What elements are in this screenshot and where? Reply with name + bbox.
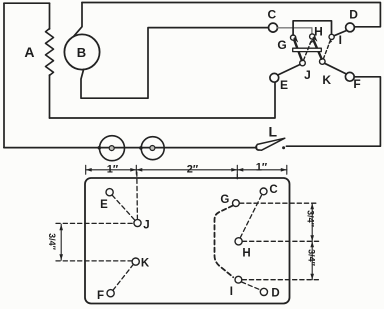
wire G to I bbox=[293, 21, 331, 35]
wire F to K bbox=[325, 63, 347, 74]
crossbar bbox=[293, 48, 322, 51]
dashed H level right bbox=[242, 240, 319, 242]
lamp 2 wire terminal bbox=[140, 147, 143, 150]
dashed K level line bbox=[56, 260, 132, 262]
hole K bbox=[132, 258, 139, 265]
terminal E bbox=[270, 73, 279, 82]
dashed drop to J bbox=[136, 172, 139, 219]
dashed H-C bbox=[240, 195, 262, 238]
wire bus y118 to E riser bbox=[50, 82, 276, 118]
dashed drop below tick 237 bbox=[236, 175, 238, 181]
lamp 1 wire terminal bbox=[98, 147, 101, 150]
svg-text:G: G bbox=[220, 194, 229, 206]
wire F to right edge down to bus bbox=[286, 77, 380, 146]
arrowhead dashed at I bbox=[328, 40, 332, 44]
svg-text:J: J bbox=[304, 68, 311, 82]
tick x136.3 bbox=[135, 165, 137, 174]
wire B top branch bbox=[74, 3, 82, 37]
svg-text:3/4″: 3/4″ bbox=[307, 249, 317, 267]
hole G bbox=[233, 200, 240, 207]
terminal F bbox=[345, 72, 354, 81]
wire B bottom to C bbox=[81, 28, 269, 99]
dashed I level right bbox=[242, 279, 321, 281]
svg-text:3/4″: 3/4″ bbox=[306, 210, 316, 228]
wire left side bbox=[3, 3, 5, 147]
svg-text:F: F bbox=[353, 77, 360, 91]
panel board rectangle bbox=[85, 178, 290, 304]
dashed F-K bbox=[113, 265, 133, 291]
contact H bbox=[310, 34, 315, 39]
blade G-J bbox=[294, 40, 302, 60]
svg-text:I: I bbox=[339, 33, 342, 47]
terminal C bbox=[269, 23, 278, 32]
resistor A bbox=[46, 29, 54, 76]
svg-text:H: H bbox=[242, 248, 250, 260]
svg-text:L: L bbox=[269, 124, 278, 140]
svg-text:2″: 2″ bbox=[187, 164, 199, 176]
switch L blade bbox=[256, 138, 284, 150]
arrowhead dashed at H bbox=[309, 40, 313, 44]
svg-text:D: D bbox=[271, 288, 279, 300]
pivot K bbox=[320, 59, 326, 65]
svg-text:K: K bbox=[322, 73, 331, 87]
dimension line top bbox=[86, 165, 287, 174]
dashed E-J bbox=[112, 195, 135, 220]
svg-text:G: G bbox=[277, 38, 286, 52]
lamp socket 1 bbox=[100, 136, 125, 161]
dashed G level right bbox=[240, 202, 317, 204]
dashed J level line bbox=[56, 222, 134, 224]
svg-text:E: E bbox=[280, 78, 288, 92]
dashed blade J-H bbox=[304, 41, 312, 61]
battery B bbox=[64, 34, 99, 69]
svg-text:3/4″: 3/4″ bbox=[47, 233, 57, 251]
svg-text:E: E bbox=[100, 199, 108, 211]
svg-text:1″: 1″ bbox=[256, 162, 268, 174]
arrowhead at H bbox=[313, 36, 317, 41]
hole I bbox=[235, 276, 242, 283]
dimension right verticals bbox=[310, 203, 314, 280]
svg-text:K: K bbox=[141, 258, 150, 270]
arrowheads top dim bbox=[86, 168, 287, 172]
wire top-left bus bbox=[4, 2, 50, 4]
dashed I-D bbox=[242, 282, 261, 290]
switch L hinge bbox=[256, 145, 262, 151]
contact I bbox=[329, 34, 334, 39]
svg-text:J: J bbox=[143, 220, 149, 232]
svg-text:A: A bbox=[24, 44, 34, 60]
wire resistor top lead bbox=[49, 3, 51, 29]
hole J bbox=[134, 219, 141, 226]
svg-text:H: H bbox=[314, 25, 323, 39]
wire bottom bus bbox=[4, 147, 256, 149]
wire E to J bbox=[278, 65, 300, 76]
terminal D bbox=[346, 23, 355, 32]
pivot J bbox=[300, 60, 306, 66]
dimension left 3/4 bbox=[59, 224, 63, 260]
svg-text:1″: 1″ bbox=[107, 164, 119, 176]
lamp socket 2 bbox=[141, 137, 164, 160]
switch L contact dot bbox=[282, 146, 285, 149]
svg-text:D: D bbox=[349, 8, 358, 22]
svg-text:C: C bbox=[267, 7, 276, 21]
tick x286.8 bbox=[286, 165, 288, 174]
lamp 1 screw bbox=[109, 146, 114, 151]
wire C to H bbox=[278, 28, 312, 34]
wire D to I bbox=[334, 30, 347, 35]
hole E bbox=[106, 189, 113, 196]
dashed curve G to I bbox=[215, 206, 234, 278]
svg-text:B: B bbox=[77, 45, 86, 60]
hole D bbox=[260, 288, 267, 295]
blade H-K bbox=[313, 40, 321, 59]
arrowhead at G bbox=[294, 37, 298, 42]
hole C bbox=[260, 188, 267, 195]
contact G bbox=[291, 35, 296, 40]
svg-text:F: F bbox=[97, 290, 104, 302]
tick x85.7 bbox=[85, 165, 87, 174]
tick x237.3 bbox=[236, 165, 238, 174]
hole H bbox=[235, 238, 242, 245]
wire top bus to right bbox=[82, 3, 380, 27]
wire resistor bottom lead bbox=[49, 75, 51, 118]
svg-text:I: I bbox=[230, 286, 233, 298]
dashed blade K-I bbox=[323, 40, 330, 59]
lamp 2 screw bbox=[150, 146, 155, 151]
svg-text:C: C bbox=[269, 184, 277, 196]
hole F bbox=[107, 290, 114, 297]
